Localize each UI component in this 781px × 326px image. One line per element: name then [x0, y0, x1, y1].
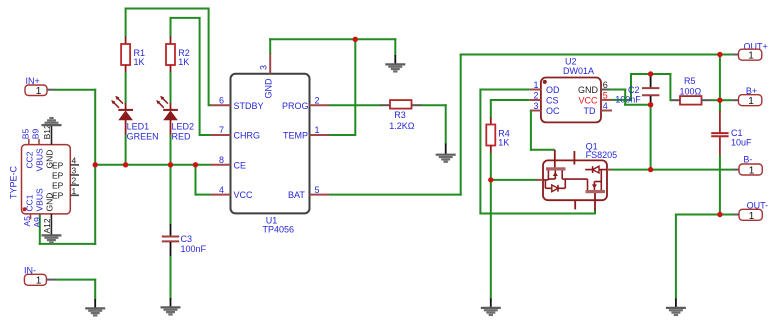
svg-text:8: 8 [219, 155, 224, 165]
wire C3 to ground [170, 256, 172, 299]
pin 6 STDBY [211, 95, 264, 110]
svg-text:DW01A: DW01A [563, 66, 594, 76]
svg-text:C3: C3 [181, 234, 193, 244]
svg-text:VBUS: VBUS [35, 148, 45, 171]
wire R4 to ground [490, 153, 492, 300]
wire U1 GND to ground rail [269, 38, 396, 54]
ground R4 [481, 299, 501, 315]
resistor R4 1K [486, 118, 510, 154]
ground above TYPE-C [42, 118, 62, 125]
svg-text:1: 1 [36, 86, 42, 97]
wire IN- to ground [56, 279, 97, 300]
svg-text:R3: R3 [394, 110, 406, 120]
node junction LED2 / VCC rail [168, 162, 173, 167]
svg-text:1: 1 [534, 80, 539, 90]
connector OUT+ [720, 41, 768, 61]
ground IN- [85, 299, 105, 315]
pin 6 GND [578, 80, 610, 95]
svg-text:6: 6 [603, 80, 608, 90]
svg-text:VCC: VCC [579, 96, 599, 106]
wire U2 GND to C2 bottom [610, 89, 651, 106]
ground U1 GND rail [385, 38, 405, 71]
wire BAT to OUT+ rail [329, 54, 720, 196]
ground R3 [436, 144, 456, 162]
svg-text:FS8205: FS8205 [586, 150, 618, 160]
wire R5 to VCC rail of U2 [612, 73, 671, 101]
wire R1 top rail to STDBY [125, 8, 211, 107]
wire TEMP to GND rail [329, 39, 355, 136]
wire R2 top rail to CHRG [170, 17, 212, 136]
wire C2 bottom to B- row [650, 105, 652, 170]
svg-text:TYPE-C: TYPE-C [9, 165, 19, 199]
wire OC to Q1 gate1 [530, 111, 555, 151]
svg-text:GREEN: GREEN [127, 131, 159, 141]
svg-text:4: 4 [72, 156, 77, 166]
pin 1 TEMP [283, 125, 330, 140]
common rail between FETs [562, 178, 587, 180]
wire C1 to OUT- row [719, 155, 721, 216]
svg-text:2: 2 [534, 90, 539, 100]
svg-text:VCC: VCC [234, 190, 254, 200]
ground C3 [161, 298, 181, 314]
resistor R5 100R [670, 76, 720, 104]
wire R3 to ground [421, 104, 447, 144]
svg-text:STDBY: STDBY [234, 101, 264, 111]
connector IN- [24, 266, 56, 287]
connector B- [733, 154, 762, 176]
connector TYPE-C J1 [9, 145, 71, 214]
svg-text:100nF: 100nF [181, 244, 207, 254]
svg-text:3: 3 [259, 65, 269, 70]
svg-text:EP: EP [52, 170, 64, 180]
svg-text:1.2KΩ: 1.2KΩ [389, 121, 415, 131]
svg-text:4: 4 [603, 101, 608, 111]
svg-text:CE: CE [234, 160, 247, 170]
svg-text:TD: TD [584, 106, 596, 116]
svg-text:1: 1 [315, 125, 320, 135]
pin 2 PROG [282, 95, 330, 110]
svg-text:B5: B5 [20, 129, 30, 140]
pin 5 VCC [579, 90, 613, 105]
Q1 source pin (left) [537, 179, 544, 181]
wire OUT- row [675, 214, 734, 300]
pins EP 4,3,2,1 of TYPE-C [52, 156, 79, 201]
svg-text:CC1: CC1 [25, 194, 35, 211]
node junction C2 bottom [648, 102, 653, 107]
FET2 (right, gate bar bottom) [586, 190, 606, 193]
resistor R2 1K [166, 37, 190, 73]
svg-text:CHRG: CHRG [234, 131, 261, 141]
wire junction to Q1 source pin [491, 179, 537, 181]
pin 4 VCC [211, 185, 254, 200]
connector OUT- [733, 200, 768, 222]
wire PROG to R3 [329, 104, 381, 106]
svg-text:R5: R5 [684, 76, 696, 86]
pin 4 TD [584, 101, 613, 116]
op-amp U1 TP4056 body [231, 74, 310, 235]
svg-text:BAT: BAT [288, 190, 305, 200]
svg-text:1K: 1K [498, 137, 509, 147]
node junction OUT+ [717, 52, 722, 57]
wire R1 to LED1 [125, 72, 127, 104]
node junction C2 top [648, 71, 653, 76]
wire IN+ to VBUS rail [39, 89, 96, 245]
connector IN+ [25, 76, 55, 97]
svg-text:4: 4 [219, 185, 224, 195]
capacitor C1 10uF [711, 100, 752, 155]
IC U2 DW01A body [541, 57, 601, 123]
svg-text:GND: GND [578, 85, 599, 95]
svg-text:100nF: 100nF [615, 95, 641, 105]
FET1 body diode [544, 180, 546, 188]
svg-text:VBUS: VBUS [35, 188, 45, 211]
svg-text:LED1: LED1 [127, 121, 150, 131]
svg-text:EP: EP [52, 181, 64, 191]
svg-text:6: 6 [219, 95, 224, 105]
svg-text:CC2: CC2 [25, 151, 35, 168]
wire VCC rail to C3 [170, 165, 172, 225]
pin B9 VBUS [31, 129, 45, 172]
pin A12 GND [42, 193, 55, 235]
FET2 body diode [585, 169, 607, 171]
capacitor C3 100nF [162, 224, 207, 257]
resistor R1 1K [121, 37, 145, 73]
svg-text:2: 2 [72, 176, 77, 186]
pin 2 CS [530, 90, 559, 105]
pin 1 OD [530, 80, 560, 95]
Q1 drain pin (right) [607, 169, 612, 171]
wire CS to R4 [491, 99, 530, 118]
svg-text:1: 1 [748, 96, 754, 107]
wire LED2 to VCC rail [170, 135, 172, 165]
svg-text:C2: C2 [628, 85, 640, 95]
node junction C1 / OUT- row [717, 212, 722, 217]
svg-text:B-: B- [743, 154, 752, 164]
pin B5 CC2 [20, 129, 34, 169]
svg-text:RED: RED [172, 131, 192, 141]
wire VCC rail [95, 164, 210, 166]
svg-text:1: 1 [749, 211, 755, 222]
svg-text:CS: CS [546, 96, 559, 106]
resistor R3 1.2K [380, 100, 421, 131]
connector B+ [720, 86, 762, 107]
pin 8 CE [211, 155, 247, 170]
svg-text:1: 1 [749, 166, 755, 177]
svg-text:3: 3 [534, 101, 539, 111]
node junction LED1 / VCC rail [123, 162, 128, 167]
pin 3 GND (top) [259, 53, 274, 99]
Q1 unconnected bottom stub [574, 200, 576, 209]
svg-text:OD: OD [546, 85, 560, 95]
node junction B+ [717, 98, 722, 103]
svg-text:TP4056: TP4056 [263, 225, 295, 235]
svg-text:3: 3 [72, 166, 77, 176]
svg-text:LED2: LED2 [172, 121, 195, 131]
svg-text:B12: B12 [42, 124, 52, 139]
ground below TYPE-C A12 [41, 235, 61, 242]
pin 7 CHRG [211, 125, 261, 140]
wire OD to Q1 gate2 [479, 89, 595, 215]
svg-text:OC: OC [546, 106, 560, 116]
wire Q1 drain to B- [611, 169, 734, 171]
wire OUT+ to B+ [719, 55, 721, 101]
svg-text:1: 1 [748, 51, 754, 62]
transistor Q1 FS8205 [537, 141, 618, 210]
capacitor C2 100nF [615, 74, 659, 105]
pin 5 BAT [288, 185, 330, 200]
svg-text:1: 1 [36, 276, 42, 287]
svg-text:A12: A12 [42, 218, 52, 233]
svg-text:5: 5 [315, 185, 320, 195]
wire R2 to LED2 [170, 72, 172, 104]
svg-text:1K: 1K [178, 57, 189, 67]
node junction TEMP / GND rail [353, 37, 358, 42]
Q1 gate2 pin (bottom right) [594, 193, 596, 211]
svg-text:A9: A9 [32, 217, 42, 228]
node junction R4 / Q1 source [488, 177, 493, 182]
svg-text:EP: EP [52, 191, 64, 201]
Q1 unconnected top stub [573, 151, 575, 165]
FET1 (left, gate bar top) [546, 167, 566, 170]
svg-text:B9: B9 [31, 129, 41, 140]
svg-text:100Ω: 100Ω [680, 86, 702, 96]
Q1 gate1 pin (top) [554, 150, 556, 168]
pin A5 CC1 [22, 194, 35, 226]
svg-text:GND: GND [264, 78, 274, 99]
svg-text:5: 5 [603, 90, 608, 100]
svg-text:EP: EP [52, 160, 64, 170]
LED LED2 RED [156, 96, 194, 142]
pin A9 VBUS [32, 188, 44, 227]
svg-text:2: 2 [315, 95, 320, 105]
node junction GND / B- row [648, 167, 653, 172]
svg-text:C1: C1 [731, 128, 743, 138]
svg-text:1: 1 [72, 186, 77, 196]
svg-text:TEMP: TEMP [283, 131, 308, 141]
wire LED1 to VCC rail [125, 135, 127, 165]
svg-text:1K: 1K [134, 57, 145, 67]
LED LED1 GREEN [111, 96, 158, 142]
node junction IN+ / VCC rail [93, 162, 98, 167]
svg-text:A5: A5 [22, 216, 32, 227]
svg-text:PROG: PROG [282, 101, 309, 111]
svg-text:7: 7 [219, 125, 224, 135]
ground OUT- [666, 299, 686, 315]
pin 3 OC [530, 101, 560, 116]
wire CE branch to VCC pin [196, 164, 212, 196]
pin B12 GND [42, 124, 55, 168]
node junction CE branch [193, 162, 198, 167]
svg-text:10uF: 10uF [731, 138, 752, 148]
